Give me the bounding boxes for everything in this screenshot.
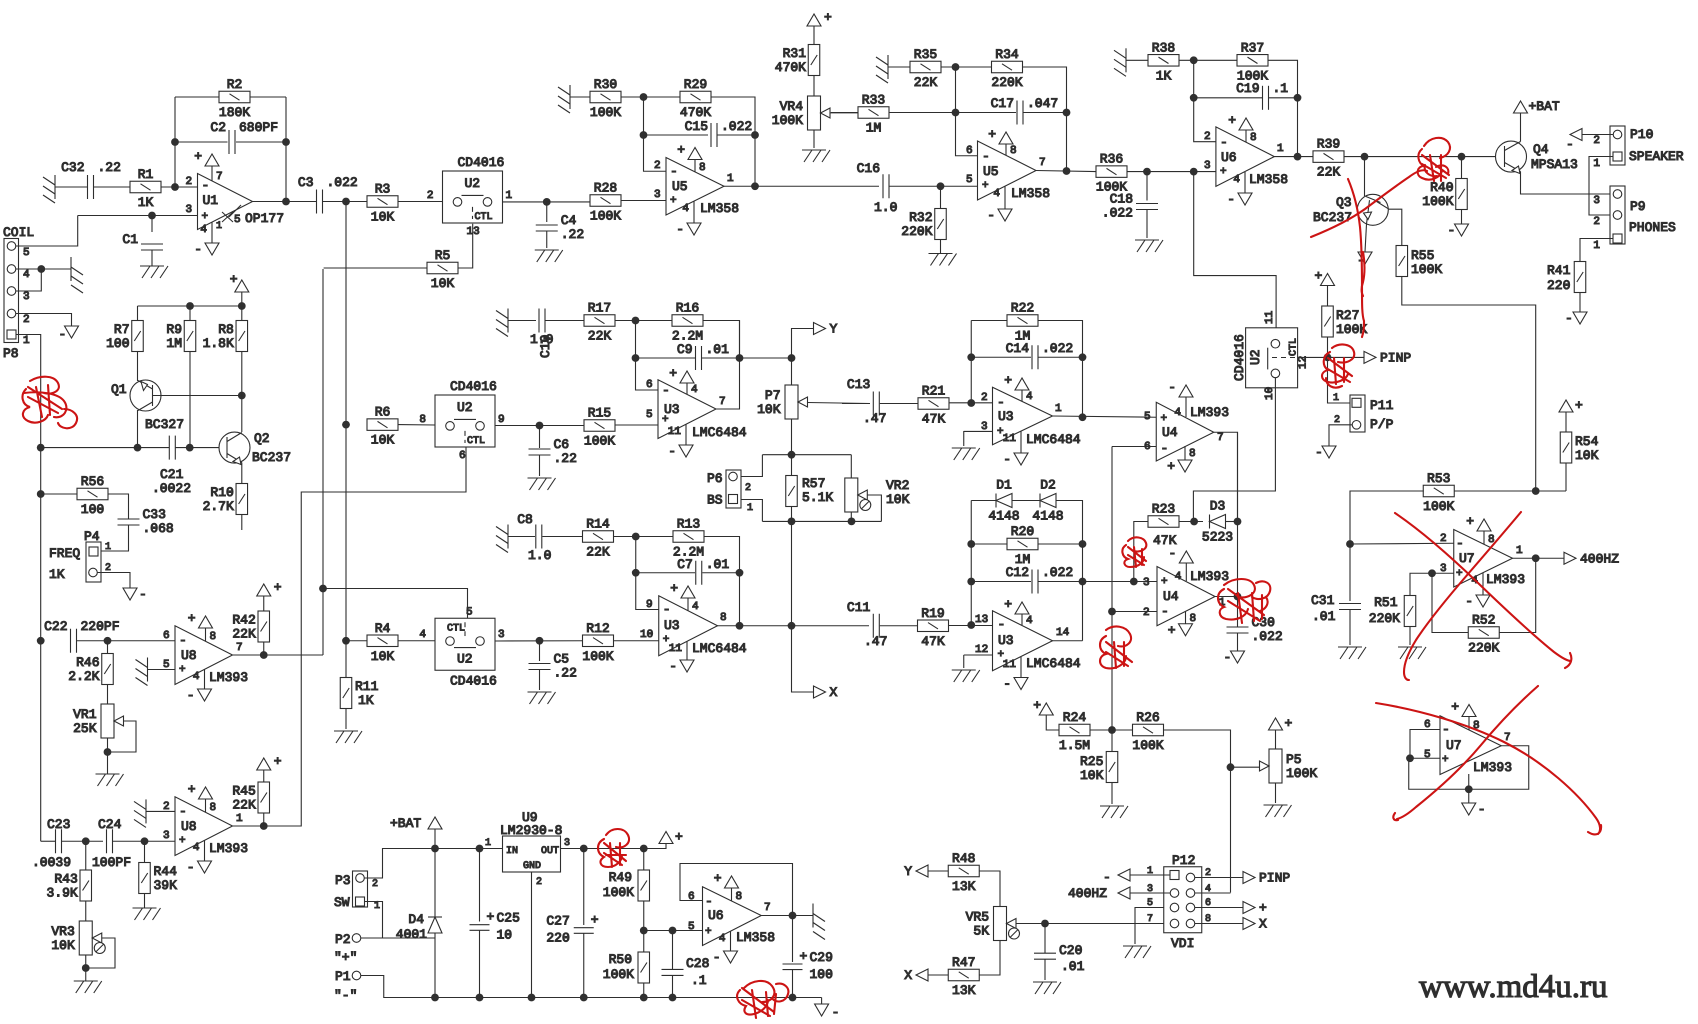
resistor R20	[1007, 524, 1038, 567]
svg-text:7: 7	[1217, 432, 1224, 444]
svg-text:2: 2	[1440, 533, 1447, 545]
capacitor C24	[107, 829, 113, 853]
svg-text:100K: 100K	[590, 209, 621, 224]
annotation scribble on bus x1112	[1100, 627, 1132, 669]
svg-text:U2: U2	[457, 651, 473, 666]
svg-text:-: -	[670, 164, 678, 179]
svg-text:C11: C11	[847, 600, 871, 615]
svg-text:CD4016: CD4016	[458, 155, 505, 170]
svg-text:1: 1	[1333, 393, 1339, 404]
wire C10-R17	[546, 320, 585, 322]
svg-text:R37: R37	[1241, 40, 1264, 55]
svg-text:2: 2	[981, 392, 988, 404]
svg-text:4001: 4001	[396, 927, 427, 942]
capacitor C32	[61, 160, 121, 199]
svg-text:LMC6484: LMC6484	[1026, 656, 1081, 671]
connector P4 FREQ	[49, 529, 111, 582]
capacitor C3	[298, 175, 358, 214]
label R55	[1411, 248, 1442, 277]
svg-text:C24: C24	[98, 817, 122, 832]
ground G1	[43, 175, 55, 203]
svg-text:11: 11	[1003, 433, 1017, 445]
wire rail	[138, 305, 242, 307]
wire R20 left	[971, 543, 1007, 545]
wire C14 right	[1039, 356, 1083, 358]
connector P1	[334, 969, 361, 1003]
wire gnd-R38	[1126, 59, 1148, 61]
pin7 label U4a	[1217, 432, 1224, 444]
svg-text:4: 4	[1233, 174, 1240, 186]
power U6b rail +	[659, 830, 683, 845]
svg-text:7: 7	[236, 642, 243, 654]
diode D3	[1202, 499, 1233, 545]
label minus P12	[1103, 870, 1111, 885]
wire U5a pin2 riser	[644, 97, 667, 171]
svg-text:C27: C27	[546, 914, 569, 929]
label VR2	[886, 478, 910, 507]
potentiometer P5	[1260, 749, 1283, 783]
resistor R6	[367, 405, 398, 448]
wire R25 stem	[1111, 730, 1113, 752]
svg-text:P2: P2	[335, 932, 351, 947]
svg-text:3: 3	[163, 830, 170, 842]
resistor R41	[1574, 262, 1586, 293]
label C10	[530, 332, 553, 358]
svg-text:U4: U4	[1163, 589, 1179, 604]
svg-text:4: 4	[1175, 571, 1182, 583]
ground G11	[528, 692, 556, 704]
wire Q3 collector	[1389, 209, 1402, 246]
svg-text:.01: .01	[706, 342, 730, 357]
svg-text:R3: R3	[375, 182, 391, 197]
svg-text:5: 5	[234, 214, 241, 226]
svg-text:VR4: VR4	[780, 99, 804, 114]
power +BAT	[390, 816, 442, 831]
wire R56 row	[41, 493, 77, 495]
junction	[82, 964, 90, 972]
analog switch U2d CD4016	[1232, 310, 1310, 400]
junction	[186, 444, 194, 452]
svg-text:R4: R4	[375, 621, 391, 636]
wire U3a out	[716, 321, 740, 410]
wire C2 right	[236, 141, 286, 143]
svg-text:-: -	[1103, 870, 1111, 885]
wire P6 pin2 riser	[740, 455, 762, 477]
svg-text:COIL: COIL	[3, 225, 34, 240]
label 400HZ in	[1068, 886, 1107, 901]
svg-text:3: 3	[186, 204, 193, 216]
wire R57 bottom	[791, 506, 793, 521]
svg-text:-: -	[1161, 604, 1169, 619]
wire R47 right	[980, 941, 1001, 975]
wire X-R47	[928, 974, 948, 976]
junction	[1079, 578, 1087, 586]
label C23	[32, 817, 71, 870]
resistor R17	[584, 301, 615, 344]
svg-text:-: -	[1003, 452, 1011, 467]
junction	[342, 198, 350, 206]
ground G15	[876, 55, 888, 83]
power pin U3a V+	[669, 366, 698, 396]
wire R15 row	[495, 425, 584, 427]
svg-text:6: 6	[688, 891, 695, 903]
wire R11 gnd	[345, 708, 347, 729]
wire R37 right	[1268, 60, 1298, 98]
svg-text:.0039: .0039	[32, 855, 71, 870]
wire C4 stem	[546, 202, 548, 222]
transistor Q1 BC327	[111, 380, 184, 432]
resistor R45	[232, 782, 269, 813]
svg-text:220PF: 220PF	[81, 619, 120, 634]
svg-text:P7: P7	[765, 388, 781, 403]
ground G5	[136, 658, 148, 686]
svg-text:R40: R40	[1430, 180, 1453, 195]
svg-text:-: -	[1227, 192, 1235, 207]
svg-text:"-": "-"	[334, 988, 357, 1003]
capacitor C30	[1227, 615, 1283, 644]
junction	[1458, 153, 1466, 161]
junction C21 row tap	[37, 444, 45, 452]
wire C30 gnd	[1237, 633, 1239, 651]
connector P12 VDI	[1147, 853, 1211, 951]
svg-text:C33: C33	[143, 507, 166, 522]
ground G26	[1398, 647, 1426, 659]
op-amp U3b pins	[981, 392, 1005, 438]
wire R23 left riser	[1134, 522, 1148, 582]
svg-text:1K: 1K	[49, 567, 65, 582]
svg-text:.01: .01	[1312, 609, 1336, 624]
wire U3a pin6 riser	[636, 321, 659, 391]
svg-text:U2: U2	[1248, 349, 1263, 365]
junction	[1361, 153, 1369, 161]
svg-text:-: -	[1442, 722, 1450, 737]
svg-text:+: +	[591, 913, 599, 928]
svg-text:CD4016: CD4016	[1232, 334, 1247, 381]
power R42 V+	[257, 580, 282, 596]
capacitor C4	[536, 213, 584, 242]
svg-text:3: 3	[1593, 195, 1600, 207]
svg-text:10K: 10K	[431, 276, 455, 291]
ground G22	[952, 670, 980, 682]
node 400HZ in	[1118, 887, 1130, 899]
power pin U8a V-	[187, 669, 212, 703]
svg-text:-: -	[179, 633, 187, 648]
wire C32-R1	[94, 186, 130, 188]
op-amp U5b	[978, 141, 1051, 201]
svg-text:R14: R14	[586, 517, 610, 532]
svg-text:R13: R13	[677, 517, 700, 532]
resistor R5	[427, 248, 458, 291]
svg-text:-: -	[1565, 311, 1573, 326]
wire P8 pin1 bus	[16, 335, 41, 842]
wire P5 top	[1275, 730, 1277, 749]
pin8 label U3c	[720, 612, 727, 624]
junction	[789, 994, 797, 1002]
wire pin3 tie	[16, 269, 41, 291]
junction	[104, 748, 112, 756]
wire P6 pin1 riser	[740, 500, 762, 522]
svg-text:5: 5	[646, 409, 653, 421]
wire Q2 emitter	[241, 463, 243, 485]
wire C4 gnd	[546, 231, 548, 248]
svg-text:C23: C23	[47, 817, 70, 832]
svg-text:10K: 10K	[371, 649, 395, 664]
wire C28 stem	[672, 931, 674, 970]
svg-text:+: +	[824, 10, 832, 25]
svg-text:OP177: OP177	[245, 211, 284, 226]
svg-text:SPEAKER: SPEAKER	[1629, 149, 1684, 164]
op-amp U7a pins	[1440, 533, 1464, 580]
svg-text:100K: 100K	[590, 105, 621, 120]
wire P1 wire	[361, 976, 822, 998]
power R45 V+	[257, 754, 282, 770]
svg-text:3: 3	[1204, 160, 1211, 172]
svg-text:LM358: LM358	[700, 201, 739, 216]
wire C17 left	[956, 112, 1017, 114]
svg-text:C12: C12	[1006, 565, 1029, 580]
potentiometer VR1	[73, 704, 123, 738]
svg-text:C29: C29	[810, 950, 833, 965]
ground G2	[140, 266, 168, 278]
svg-text:.068: .068	[143, 521, 174, 536]
wire P5 wiper	[1231, 766, 1260, 768]
svg-text:LM393: LM393	[1486, 572, 1525, 587]
svg-text:R12: R12	[586, 621, 609, 636]
op-amp U7b pins	[1424, 719, 1450, 766]
resistor R26	[1132, 710, 1163, 753]
resistor R16	[672, 301, 703, 344]
wire bus791 down	[792, 521, 814, 692]
ground G19	[496, 309, 508, 337]
node X out	[814, 685, 838, 700]
svg-text:39K: 39K	[154, 878, 178, 893]
svg-text:.1: .1	[1273, 81, 1289, 96]
junction	[640, 994, 648, 1002]
svg-text:R31: R31	[783, 46, 807, 61]
wire U6a out	[1274, 156, 1313, 158]
svg-text:+: +	[669, 366, 677, 381]
label R27	[1336, 308, 1367, 337]
svg-text:4: 4	[193, 671, 200, 683]
svg-text:R43: R43	[54, 872, 77, 887]
svg-text:3: 3	[564, 838, 570, 849]
wire C13-R21	[880, 403, 918, 405]
label R25	[1080, 754, 1104, 783]
wire VR2 wiper	[867, 495, 881, 521]
wire D row	[971, 500, 996, 502]
svg-text:.22: .22	[554, 666, 577, 681]
svg-text:X: X	[904, 968, 912, 983]
svg-text:LMC6484: LMC6484	[692, 641, 747, 656]
svg-text:5: 5	[23, 247, 30, 259]
annotation scribble near C29	[737, 981, 788, 1018]
wire C22 right	[77, 640, 175, 642]
node speaker minus	[1570, 129, 1582, 141]
wire bus346	[345, 202, 347, 679]
svg-text:+BAT: +BAT	[1529, 99, 1560, 114]
ground G12	[334, 731, 362, 743]
junction	[1294, 94, 1302, 102]
power pin U4a V+bot	[1167, 446, 1195, 474]
wire Q4 emitter	[1521, 172, 1612, 195]
junction	[1428, 569, 1436, 577]
svg-text:+: +	[670, 195, 677, 207]
svg-text:U1: U1	[203, 193, 219, 208]
wire P12 pin4 riser	[1230, 767, 1232, 892]
pin1 label U3b	[1055, 403, 1062, 415]
diode D1	[988, 478, 1019, 524]
junction	[1346, 540, 1354, 548]
junction	[1190, 56, 1198, 64]
wire to R28	[547, 201, 590, 203]
power pin U3b V+	[1004, 373, 1033, 403]
wire pin5 link	[1135, 908, 1170, 924]
svg-text:U5: U5	[983, 164, 999, 179]
svg-text:2: 2	[1593, 135, 1600, 147]
resistor R14	[583, 517, 614, 560]
wire R9 top	[189, 306, 191, 321]
power pin U7b V+	[1451, 700, 1479, 733]
svg-text:R32: R32	[909, 210, 932, 225]
svg-text:U6: U6	[1221, 150, 1237, 165]
junction	[1079, 413, 1087, 421]
node 400HZ out	[1564, 551, 1619, 566]
annotation scribble on U4b out	[1218, 579, 1270, 623]
svg-text:100K: 100K	[1411, 262, 1442, 277]
wire P3 pin2	[364, 849, 666, 879]
junction	[134, 444, 142, 452]
power pin U3d V+	[1004, 597, 1033, 627]
junction	[751, 131, 759, 139]
resistor R37	[1237, 40, 1268, 83]
svg-text:IN: IN	[506, 846, 518, 857]
wire U3d fb riser	[970, 501, 972, 626]
svg-text:4148: 4148	[1032, 509, 1063, 524]
resistor R19	[918, 606, 949, 649]
svg-text:R48: R48	[952, 851, 975, 866]
annotation scribble near R39	[1418, 138, 1450, 181]
node X in	[904, 968, 928, 983]
svg-text:C9: C9	[677, 342, 693, 357]
svg-text:8: 8	[1010, 145, 1017, 157]
resistor R43	[47, 870, 92, 901]
wire D3 right	[1226, 521, 1238, 523]
svg-text:11: 11	[669, 643, 683, 655]
svg-text:C17: C17	[991, 96, 1014, 111]
op-amp U5b pins	[966, 145, 990, 192]
svg-text:1M: 1M	[866, 121, 882, 136]
resistor R46	[68, 654, 113, 685]
ground G14	[929, 254, 957, 266]
svg-text:100PF: 100PF	[92, 855, 131, 870]
svg-text:4: 4	[719, 933, 726, 945]
svg-text:R17: R17	[588, 301, 611, 316]
node X out arrow	[1243, 917, 1267, 932]
pin1 label U6a	[1277, 143, 1284, 155]
svg-text:5: 5	[1147, 898, 1153, 909]
annotation X over U7b stroke1	[1376, 703, 1601, 834]
wire C1 gnd stem	[151, 250, 153, 266]
annotation scribble near R23	[1122, 537, 1146, 567]
op-amp U5a	[666, 158, 739, 217]
capacitor C31	[1339, 604, 1361, 610]
svg-text:P12: P12	[1172, 853, 1195, 868]
svg-text:13K: 13K	[952, 983, 976, 998]
wire VR1 bottom	[107, 738, 109, 774]
svg-text:R11: R11	[355, 679, 379, 694]
svg-text:8: 8	[210, 631, 217, 643]
wire R15-U3a	[615, 424, 658, 426]
svg-text:VR5: VR5	[966, 910, 989, 925]
svg-text:R34: R34	[995, 47, 1019, 62]
wire R46-VR1	[107, 684, 109, 704]
svg-text:U8: U8	[181, 819, 197, 834]
resistor R55	[1396, 246, 1408, 277]
power pin U4b V+bot	[1168, 611, 1196, 638]
svg-text:+: +	[1259, 901, 1267, 916]
svg-text:R36: R36	[1100, 152, 1123, 167]
ground G10	[528, 478, 556, 490]
svg-text:+: +	[1168, 623, 1176, 638]
junction	[1108, 726, 1116, 734]
svg-text:5: 5	[1144, 411, 1151, 423]
svg-text:-: -	[998, 617, 1006, 632]
potentiometer P7	[757, 385, 807, 419]
svg-text:C25: C25	[497, 911, 520, 926]
wire U4a out	[1214, 432, 1238, 521]
capacitor C21	[169, 436, 175, 460]
wire U2d pin10	[1193, 378, 1275, 522]
ground G20	[952, 448, 980, 460]
svg-text:2: 2	[186, 176, 193, 188]
wire R13 right	[704, 537, 740, 626]
svg-text:-: -	[1224, 650, 1232, 665]
svg-text:BC327: BC327	[145, 417, 184, 432]
svg-text:8: 8	[1250, 132, 1257, 144]
resistor R13	[673, 517, 704, 560]
annotation X over Q3 stroke1	[1311, 170, 1427, 237]
junction	[1190, 518, 1198, 526]
svg-text:.47: .47	[863, 411, 886, 426]
svg-text:1: 1	[747, 503, 753, 514]
connector P6 BS	[707, 470, 753, 514]
wire C31 gnd	[1349, 610, 1351, 646]
label R11	[355, 679, 379, 708]
junction	[632, 569, 640, 577]
power pin U6a V+	[1228, 113, 1256, 144]
svg-text:C22: C22	[44, 619, 67, 634]
svg-text:R30: R30	[594, 77, 617, 92]
resistor R38	[1148, 40, 1179, 83]
resistor R53	[1423, 471, 1454, 514]
wire pin7 link	[1135, 923, 1170, 925]
svg-text:2.7K: 2.7K	[203, 499, 234, 514]
resistor R36	[1096, 152, 1127, 195]
power bias V+	[230, 272, 249, 292]
svg-text:5: 5	[1424, 749, 1431, 761]
svg-text:CD4016: CD4016	[450, 673, 497, 688]
svg-text:2: 2	[372, 879, 378, 890]
wire R56-C33	[108, 494, 129, 519]
wire VR2 top	[850, 455, 852, 478]
resistor R9	[166, 321, 195, 352]
svg-text:C31: C31	[1311, 593, 1335, 608]
wire C3-R3	[323, 201, 367, 203]
svg-text:P6: P6	[707, 471, 723, 486]
wire R52 left	[1432, 573, 1468, 632]
capacitor C13	[847, 377, 879, 416]
junction	[1063, 109, 1071, 117]
